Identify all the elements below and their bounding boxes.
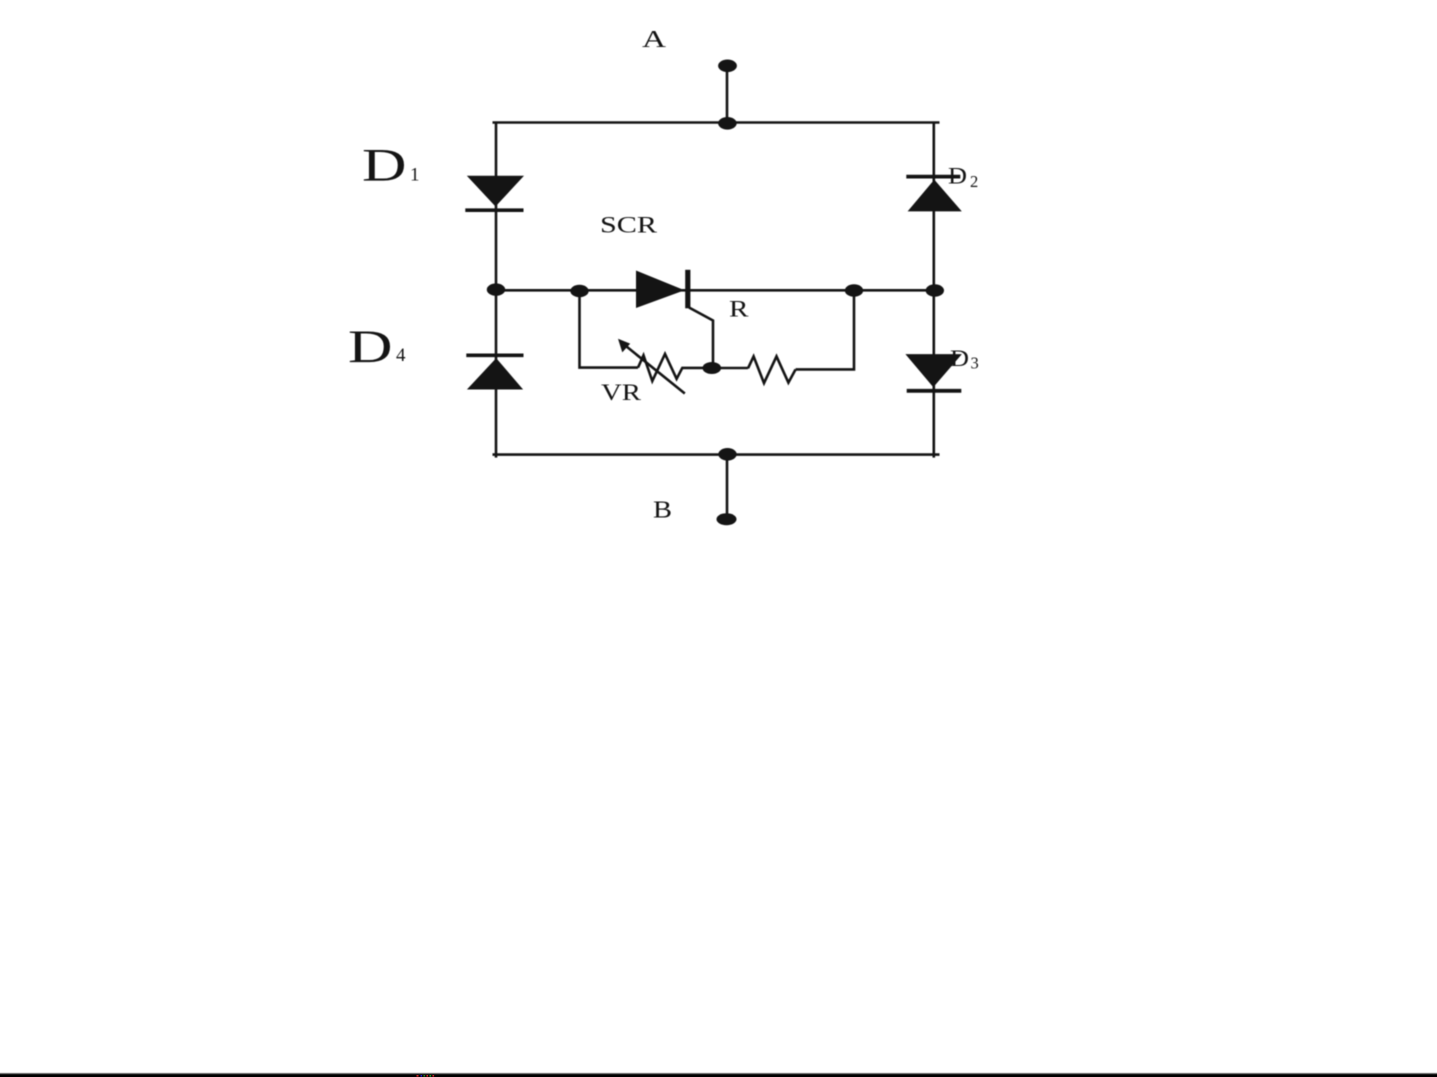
svg-text:A: A (642, 27, 667, 53)
svg-text:B: B (653, 497, 672, 523)
wire: gate node to R (712, 367, 748, 370)
svg-text:D: D (362, 140, 407, 192)
wire: R to right riser (796, 291, 854, 370)
svg-text:4: 4 (396, 345, 406, 366)
wire: bottom horizontal (493, 453, 940, 456)
diode D3 (905, 354, 962, 391)
bottom bar colored artifact pixels (417, 1075, 435, 1077)
node B terminal (717, 455, 737, 526)
svg-text:D: D (348, 321, 393, 373)
diode D1 (465, 176, 524, 210)
svg-text:D: D (950, 346, 969, 371)
junction: left branch / middle wire (487, 283, 505, 295)
diode D4 (466, 355, 523, 389)
wire: middle horizontal (anode row) (496, 289, 934, 292)
diode D2 (906, 177, 962, 212)
SCR thyristor (636, 270, 713, 368)
junction: right branch / middle wire (926, 284, 944, 296)
svg-text:R: R (729, 297, 749, 322)
svg-text:1: 1 (410, 165, 420, 186)
wire: right vertical branch (932, 123, 935, 458)
svg-text:SCR: SCR (600, 213, 657, 239)
wire: VR branch left drop (580, 291, 639, 368)
junction: bottom wire / node B (718, 448, 736, 461)
junction at top wire / node A (718, 117, 737, 130)
resistor R (748, 356, 796, 383)
svg-text:2: 2 (970, 172, 978, 191)
svg-text:D: D (948, 163, 967, 188)
bottom page border bar (0, 1073, 1437, 1077)
svg-text:VR: VR (601, 380, 642, 405)
wire: top horizontal (493, 121, 940, 124)
junction: gate / VR / R node (703, 362, 722, 374)
node A terminal (718, 60, 737, 123)
junction: VR branch top (570, 285, 588, 297)
junction: R branch top (845, 284, 863, 296)
variable resistor VR (618, 339, 705, 394)
svg-text:3: 3 (971, 354, 979, 373)
wire: left vertical branch (495, 123, 498, 458)
